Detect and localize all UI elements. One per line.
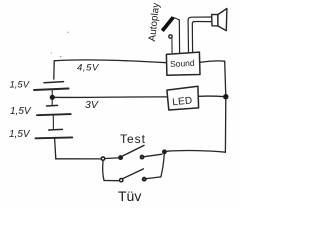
svg-text:1,5V: 1,5V xyxy=(9,129,31,140)
svg-text:Sound: Sound xyxy=(170,58,195,69)
svg-text:Tüv: Tüv xyxy=(118,188,141,204)
svg-text:4,5V: 4,5V xyxy=(77,62,100,73)
svg-text:1,5V: 1,5V xyxy=(10,106,32,117)
svg-text:1,5V: 1,5V xyxy=(10,80,31,91)
svg-text:3V: 3V xyxy=(85,99,99,111)
svg-text:Autoplay: Autoplay xyxy=(147,2,162,42)
svg-text:LED: LED xyxy=(172,95,193,108)
svg-text:Test: Test xyxy=(120,132,146,146)
